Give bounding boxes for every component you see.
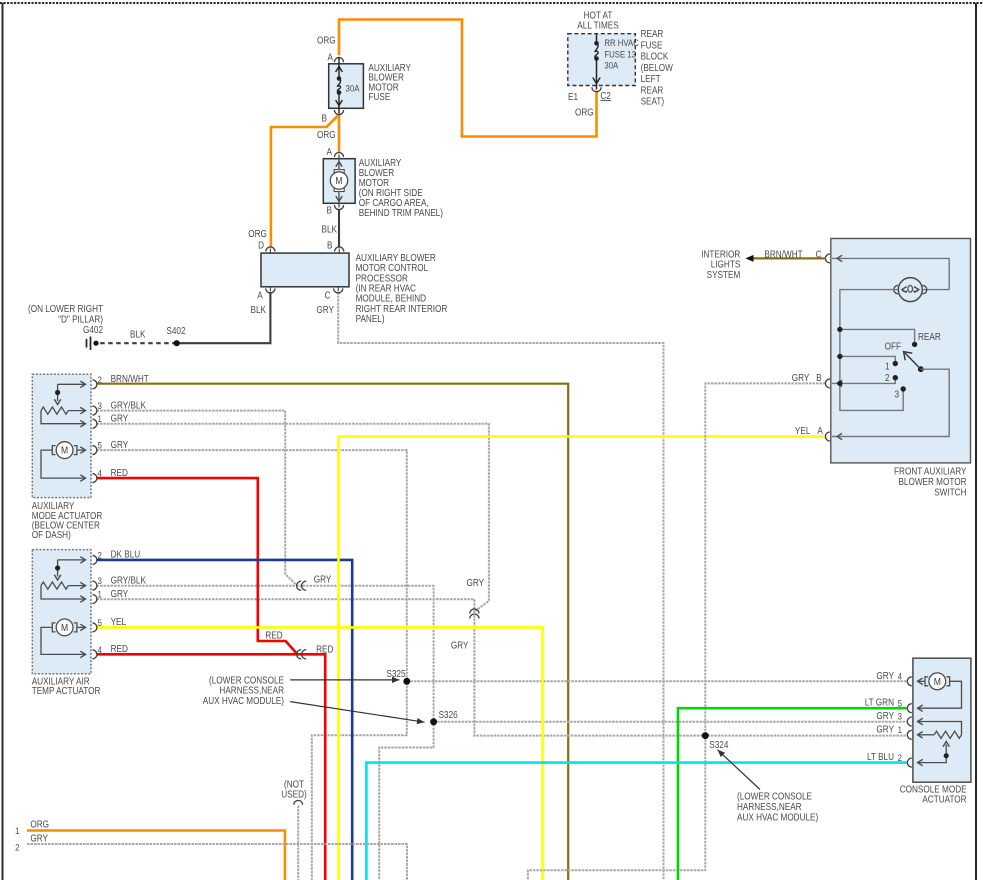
wire GRY processor pin C to lower-right vertical run bbox=[338, 292, 663, 880]
svg-text:S324: S324 bbox=[709, 739, 728, 750]
svg-text:B: B bbox=[322, 113, 327, 124]
splice S326 bbox=[430, 718, 437, 725]
svg-text:1: 1 bbox=[898, 724, 902, 735]
auxiliary mode actuator box bbox=[32, 374, 91, 497]
wire stub (NOT USED) bbox=[297, 806, 299, 880]
svg-text:3: 3 bbox=[98, 575, 102, 586]
auxiliary blower motor box bbox=[323, 159, 355, 204]
splice S402 bbox=[174, 340, 180, 346]
mode actuator pin arcs and labels bbox=[92, 380, 97, 389]
svg-text:E1: E1 bbox=[568, 91, 578, 102]
svg-text:4: 4 bbox=[98, 644, 102, 655]
illumination lamp symbol bbox=[898, 278, 922, 302]
junction dot at ground lead bbox=[93, 341, 98, 346]
mode actuator potentiometer bbox=[57, 384, 59, 401]
wire GRY from inline connector to S326 then console pin 3 and down page bbox=[303, 586, 434, 880]
svg-text:2: 2 bbox=[98, 374, 102, 385]
svg-text:M: M bbox=[934, 676, 941, 688]
wire YEL switch pin A down page bbox=[339, 437, 826, 880]
wire GRY connector pin 2 at lower left bbox=[27, 844, 407, 880]
svg-text:AUX HVAC MODULE): AUX HVAC MODULE) bbox=[203, 695, 284, 706]
svg-text:S325: S325 bbox=[386, 668, 405, 679]
svg-text:LT GRN: LT GRN bbox=[865, 697, 894, 708]
connector arc motor pin A bbox=[334, 153, 343, 158]
svg-text:LT BLU: LT BLU bbox=[867, 751, 894, 762]
svg-text:FUSE: FUSE bbox=[641, 40, 663, 51]
rear fuse block dashed box bbox=[568, 34, 636, 86]
svg-text:M: M bbox=[335, 175, 342, 187]
svg-text:C: C bbox=[816, 249, 822, 260]
svg-text:"D" PILLAR): "D" PILLAR) bbox=[58, 314, 103, 325]
wire BRN/WHT to interior lights system with arrow bbox=[753, 257, 826, 259]
svg-text:(BELOW: (BELOW bbox=[641, 62, 674, 73]
svg-text:BLOWER MOTOR: BLOWER MOTOR bbox=[898, 476, 966, 487]
splice S324 bbox=[702, 732, 709, 739]
temp actuator motor bbox=[52, 623, 55, 632]
wire LT GRN console pin 5 down page bbox=[678, 708, 907, 880]
svg-text:GRY: GRY bbox=[467, 577, 485, 588]
wire ORG connector pin 1 at lower left bbox=[27, 831, 285, 880]
splice dots redrawn on top bbox=[403, 678, 410, 685]
wire RED temp actuator pin 4 to inline connector bbox=[97, 653, 304, 656]
leader arrows to S325 and S326 bbox=[290, 679, 399, 681]
svg-text:(ON LOWER RIGHT: (ON LOWER RIGHT bbox=[28, 303, 103, 314]
inline connector on GRY wire near temp actuator bbox=[297, 581, 302, 590]
svg-text:B: B bbox=[327, 240, 332, 251]
inline connector on GRY wire (vertical) bbox=[470, 609, 479, 614]
svg-text:GRY/BLK: GRY/BLK bbox=[111, 575, 146, 586]
svg-text:BLK: BLK bbox=[251, 304, 266, 315]
svg-text:2: 2 bbox=[98, 550, 102, 561]
svg-text:ORG: ORG bbox=[248, 228, 267, 239]
svg-text:30A: 30A bbox=[604, 60, 618, 71]
connector arc fuse pin A bbox=[334, 58, 343, 63]
svg-text:5: 5 bbox=[898, 698, 902, 709]
svg-text:BLK: BLK bbox=[322, 224, 337, 235]
svg-text:1: 1 bbox=[98, 413, 102, 424]
connector arc processor pin B bbox=[335, 247, 344, 252]
wire GRY from vertical connector to S324 and console pin 1 bbox=[474, 612, 906, 736]
wire BLK processor pin A to S402 and ground G402 bbox=[177, 292, 271, 343]
svg-text:YEL: YEL bbox=[111, 616, 126, 627]
svg-text:ACTUATOR: ACTUATOR bbox=[922, 794, 967, 805]
svg-text:A: A bbox=[327, 146, 333, 157]
switch contact rows bbox=[840, 329, 915, 342]
wire GRY switch pin B through S324 down page bbox=[528, 383, 826, 880]
svg-text:C2: C2 bbox=[600, 90, 610, 101]
wire GRY/BLK mode actuator pin 3 to inline connector bbox=[97, 411, 298, 586]
svg-text:INTERIOR: INTERIOR bbox=[701, 249, 740, 260]
svg-text:5: 5 bbox=[98, 617, 102, 628]
svg-text:LIGHTS: LIGHTS bbox=[711, 259, 741, 270]
svg-text:GRY/BLK: GRY/BLK bbox=[111, 400, 146, 411]
page border frame bbox=[0, 2, 983, 4]
svg-text:BLK: BLK bbox=[130, 329, 145, 340]
svg-text:BRN/WHT: BRN/WHT bbox=[764, 249, 803, 260]
svg-text:5: 5 bbox=[98, 440, 102, 451]
wire ORG fuse pin B branch to processor pin D bbox=[271, 116, 338, 248]
svg-text:M: M bbox=[61, 445, 68, 457]
svg-text:GRY: GRY bbox=[111, 413, 129, 424]
svg-text:S326: S326 bbox=[439, 709, 458, 720]
svg-text:4: 4 bbox=[98, 468, 102, 479]
wire BRN/WHT mode actuator pin 2 down page bbox=[97, 384, 569, 880]
svg-text:ORG: ORG bbox=[317, 129, 336, 140]
svg-text:GRY: GRY bbox=[876, 724, 894, 735]
svg-text:2: 2 bbox=[885, 372, 890, 383]
wire LT BLU console pin 2 down page bbox=[366, 763, 906, 880]
svg-text:FRONT AUXILIARY: FRONT AUXILIARY bbox=[894, 466, 966, 477]
fuse element 30A bbox=[338, 57, 340, 79]
svg-text:2: 2 bbox=[15, 842, 19, 853]
svg-text:HARNESS,NEAR: HARNESS,NEAR bbox=[219, 685, 284, 696]
leader arrow to S324 bbox=[718, 750, 761, 790]
svg-text:(LOWER CONSOLE: (LOWER CONSOLE bbox=[737, 791, 812, 802]
svg-text:GRY: GRY bbox=[316, 304, 334, 315]
svg-text:OFF: OFF bbox=[885, 341, 902, 352]
svg-text:BRN/WHT: BRN/WHT bbox=[111, 373, 150, 384]
svg-text:ORG: ORG bbox=[30, 819, 49, 830]
svg-text:GRY: GRY bbox=[876, 670, 894, 681]
svg-text:RED: RED bbox=[111, 467, 129, 478]
svg-text:GRY: GRY bbox=[111, 588, 129, 599]
console actuator motor bbox=[925, 677, 928, 686]
svg-text:SEAT): SEAT) bbox=[641, 96, 664, 107]
svg-text:TEMP ACTUATOR: TEMP ACTUATOR bbox=[32, 685, 101, 696]
svg-text:SYSTEM: SYSTEM bbox=[707, 269, 741, 280]
svg-text:D: D bbox=[258, 240, 264, 251]
svg-text:GRY: GRY bbox=[876, 710, 894, 721]
auxiliary blower motor fuse box bbox=[329, 64, 364, 109]
svg-text:A: A bbox=[328, 52, 334, 63]
svg-text:3: 3 bbox=[98, 400, 102, 411]
fuse RR HVAC FUSE 13 30A element bbox=[596, 34, 598, 44]
svg-text:30A: 30A bbox=[346, 83, 360, 94]
wire ORG battery feed: rear fuse block E1 to aux blower motor fuse pin A bbox=[339, 20, 597, 137]
svg-text:REAR: REAR bbox=[641, 85, 664, 96]
svg-text:3: 3 bbox=[898, 711, 902, 722]
wire RED mode actuator pin 4 to inline connector bbox=[97, 478, 298, 654]
svg-text:OF DASH): OF DASH) bbox=[32, 529, 71, 540]
svg-text:2: 2 bbox=[898, 752, 902, 763]
connector C2 arc at E1 bbox=[592, 87, 601, 92]
mode actuator motor bbox=[52, 446, 55, 455]
svg-text:FUSE 13: FUSE 13 bbox=[604, 49, 636, 60]
wire GRY mode actuator pin 1 down to joint bbox=[97, 424, 489, 611]
svg-text:4: 4 bbox=[898, 671, 902, 682]
svg-text:RED: RED bbox=[265, 630, 283, 641]
connector arc fuse pin B bbox=[334, 110, 343, 115]
connector arc processor pin A bbox=[266, 288, 275, 293]
svg-text:RED: RED bbox=[111, 643, 129, 654]
svg-text:A: A bbox=[257, 290, 263, 301]
svg-text:REAR: REAR bbox=[641, 28, 664, 39]
auxiliary air temp actuator box bbox=[32, 550, 91, 674]
svg-text:GRY: GRY bbox=[451, 640, 469, 651]
console actuator potentiometer bbox=[919, 722, 962, 735]
svg-text:GRY: GRY bbox=[792, 372, 810, 383]
inline connector on RED wire bbox=[297, 650, 302, 659]
svg-text:GRY: GRY bbox=[30, 833, 48, 844]
svg-text:1: 1 bbox=[885, 361, 890, 372]
svg-text:BLOCK: BLOCK bbox=[641, 51, 669, 62]
wire BLK blower motor pin B to processor pin B bbox=[338, 209, 340, 247]
svg-text:GRY: GRY bbox=[111, 439, 129, 450]
svg-text:G402: G402 bbox=[83, 324, 103, 335]
svg-text:BEHIND TRIM PANEL): BEHIND TRIM PANEL) bbox=[359, 207, 443, 218]
wire GRY mode actuator pin 5 through S325 and left-down run bbox=[97, 450, 407, 880]
wire ORG fuse pin B to blower motor pin A bbox=[338, 115, 341, 153]
wire GRY temp actuator pin 1 to same joint bbox=[97, 599, 475, 611]
svg-text:1: 1 bbox=[15, 825, 19, 836]
svg-text:B: B bbox=[327, 205, 332, 216]
svg-text:3: 3 bbox=[894, 389, 899, 400]
console actuator pin arcs and labels bbox=[907, 677, 912, 686]
svg-text:PANEL): PANEL) bbox=[356, 313, 385, 324]
svg-text:ORG: ORG bbox=[317, 35, 336, 46]
svg-text:FUSE: FUSE bbox=[368, 91, 390, 102]
connector arc processor pin D bbox=[266, 247, 275, 252]
svg-text:RED: RED bbox=[316, 644, 334, 655]
wire GRY/BLK aux air temp actuator pin 3 to inline connector bbox=[97, 585, 304, 587]
svg-text:A: A bbox=[817, 425, 823, 436]
wire DK BLU temp actuator pin 2 down page bbox=[97, 560, 353, 880]
svg-text:1: 1 bbox=[98, 589, 102, 600]
auxiliary blower motor control processor box bbox=[261, 253, 349, 287]
svg-text:REAR: REAR bbox=[918, 331, 941, 342]
temp actuator pin arcs and labels bbox=[92, 555, 97, 564]
svg-text:(LOWER CONSOLE: (LOWER CONSOLE bbox=[209, 675, 284, 686]
svg-text:S402: S402 bbox=[166, 325, 185, 336]
svg-text:AUX HVAC MODULE): AUX HVAC MODULE) bbox=[737, 812, 818, 823]
svg-text:ALL TIMES: ALL TIMES bbox=[577, 20, 618, 31]
svg-text:RR HVAC: RR HVAC bbox=[604, 37, 638, 48]
svg-text:DK BLU: DK BLU bbox=[111, 549, 141, 560]
svg-text:YEL: YEL bbox=[795, 425, 810, 436]
temp actuator potentiometer bbox=[57, 560, 59, 577]
svg-text:(NOT: (NOT bbox=[284, 779, 304, 790]
svg-text:USED): USED) bbox=[281, 789, 306, 800]
svg-text:HARNESS,NEAR: HARNESS,NEAR bbox=[737, 801, 802, 812]
svg-text:HOT AT: HOT AT bbox=[584, 10, 613, 21]
wiper to pin A route bbox=[832, 369, 949, 436]
processor pin stubs bbox=[269, 249, 271, 254]
connector arc processor pin C bbox=[334, 288, 343, 293]
switch pin arcs bbox=[825, 254, 830, 263]
contact dots bbox=[837, 327, 842, 332]
switch wiper arm bbox=[918, 366, 924, 372]
console mode actuator box bbox=[913, 658, 971, 782]
svg-text:GRY: GRY bbox=[314, 574, 332, 585]
motor symbol bbox=[338, 155, 340, 208]
ground G402 symbol bbox=[90, 337, 92, 351]
front auxiliary blower motor switch box bbox=[831, 239, 971, 463]
svg-text:SWITCH: SWITCH bbox=[934, 487, 966, 498]
svg-text:CONSOLE MODE: CONSOLE MODE bbox=[900, 784, 967, 795]
connector arc of NOT USED stub bbox=[294, 800, 303, 804]
wire RED from connector down page bbox=[303, 654, 326, 880]
svg-text:M: M bbox=[61, 622, 68, 634]
connector arc motor pin B bbox=[334, 205, 343, 210]
svg-text:ORG: ORG bbox=[575, 107, 594, 118]
svg-text:C: C bbox=[325, 290, 331, 301]
splice S325 branch to console pin 4 bbox=[407, 680, 907, 682]
wire YEL temp actuator pin 5 down page bbox=[97, 627, 543, 880]
svg-text:B: B bbox=[816, 372, 821, 383]
switch interior wiring to lamp bbox=[832, 258, 949, 289]
svg-text:LEFT: LEFT bbox=[641, 73, 661, 84]
